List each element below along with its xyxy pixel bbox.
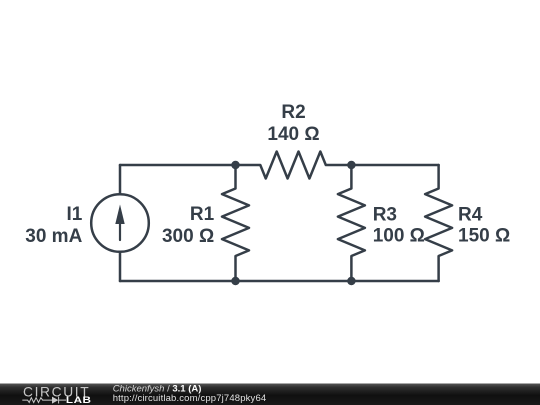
svg-text:LAB: LAB bbox=[66, 396, 92, 405]
svg-text:300 Ω: 300 Ω bbox=[162, 226, 214, 247]
wire top bbox=[120, 164, 236, 167]
svg-text:140 Ω: 140 Ω bbox=[267, 124, 319, 145]
node top right bbox=[347, 161, 356, 170]
current source I1 bbox=[91, 165, 149, 281]
resistor R2 bbox=[236, 152, 352, 179]
svg-text:30 mA: 30 mA bbox=[25, 226, 82, 247]
node top left bbox=[231, 161, 240, 170]
svg-text:R3: R3 bbox=[373, 204, 397, 225]
svg-text:I1: I1 bbox=[66, 204, 82, 225]
svg-text:http://circuitlab.com/cpp7j748: http://circuitlab.com/cpp7j748pky64 bbox=[113, 393, 267, 404]
resistor R1 bbox=[222, 165, 249, 281]
svg-text:R2: R2 bbox=[281, 102, 305, 123]
svg-text:R4: R4 bbox=[458, 204, 483, 225]
wire top right bbox=[351, 164, 438, 167]
node bottom right bbox=[347, 277, 356, 286]
logo resistor-diode glyph bbox=[22, 397, 66, 404]
wire bottom bbox=[120, 280, 439, 283]
logo diode triangle bbox=[52, 397, 58, 404]
svg-text:150 Ω: 150 Ω bbox=[458, 226, 510, 247]
resistor R3 bbox=[338, 165, 365, 281]
node bottom left bbox=[231, 277, 240, 286]
svg-text:100 Ω: 100 Ω bbox=[373, 226, 425, 247]
svg-text:R1: R1 bbox=[190, 204, 215, 225]
resistor R4 bbox=[425, 165, 452, 281]
arrow head of I1 bbox=[115, 205, 124, 225]
